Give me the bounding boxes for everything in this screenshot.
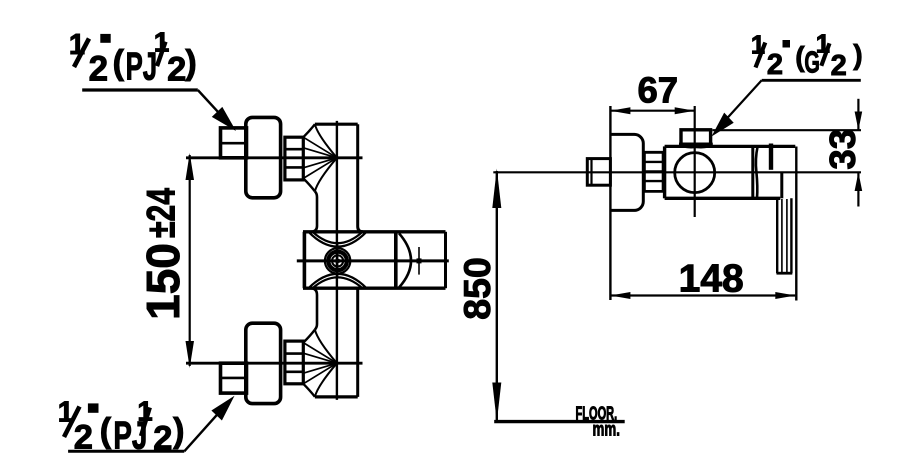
- svg-text:(: (: [113, 44, 125, 82]
- svg-text:148: 148: [679, 258, 744, 301]
- svg-text:2: 2: [89, 50, 108, 89]
- svg-text:150: 150: [137, 243, 189, 320]
- svg-text:): ): [173, 412, 184, 450]
- svg-text:): ): [853, 39, 862, 70]
- svg-text:2: 2: [767, 49, 783, 81]
- svg-text:PJ: PJ: [126, 45, 158, 88]
- svg-text:±24: ±24: [140, 187, 184, 238]
- svg-text:850: 850: [456, 257, 498, 320]
- svg-text:2: 2: [153, 420, 172, 458]
- svg-text:2: 2: [74, 419, 93, 457]
- svg-text:1: 1: [69, 29, 85, 61]
- svg-text:): ): [185, 44, 196, 82]
- svg-text:(: (: [100, 412, 112, 450]
- svg-text:2: 2: [831, 50, 847, 82]
- svg-text:mm.: mm.: [593, 418, 620, 440]
- svg-text:2: 2: [167, 51, 186, 89]
- svg-text:33: 33: [822, 129, 863, 170]
- svg-text:67: 67: [637, 70, 678, 111]
